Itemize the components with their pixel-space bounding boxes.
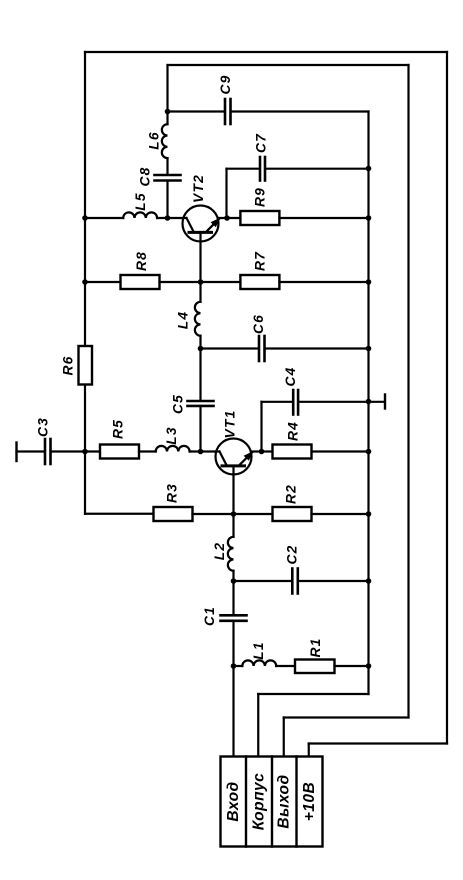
node C4 row bus	[366, 399, 372, 405]
inductor L2	[228, 537, 234, 571]
wire stub to terminal	[369, 401, 385, 403]
wire to L2	[232, 514, 234, 537]
connector divider 2	[271, 757, 273, 847]
resistor R8	[121, 275, 160, 289]
svg-text:L1: L1	[251, 641, 266, 660]
svg-text:R1: R1	[308, 637, 323, 657]
node C5 / VT1 base row	[198, 449, 204, 455]
svg-text:C2: C2	[285, 544, 300, 564]
terminal bar right	[384, 395, 386, 409]
wire L1 to R1	[276, 665, 295, 667]
svg-text:R6: R6	[61, 355, 76, 375]
wire jog to +10V pin	[309, 742, 447, 744]
svg-text:C5: C5	[171, 394, 186, 414]
wire L2 to C2 row	[232, 571, 234, 581]
connector divider 1	[245, 757, 247, 847]
capacitor C2	[292, 569, 298, 594]
wire R8 row left	[85, 281, 121, 283]
svg-text:L3: L3	[164, 426, 179, 445]
node L4 / C6 row	[198, 346, 204, 352]
resistor R2	[273, 507, 312, 521]
node R9 row bus	[366, 215, 372, 221]
svg-text:R7: R7	[253, 251, 268, 271]
wire VT2 emitter lead	[199, 234, 201, 282]
resistor R6	[79, 346, 93, 385]
node C6 row bus	[366, 346, 372, 352]
node VT2 collector / C7	[224, 215, 230, 221]
wire ground bus jog	[258, 693, 368, 695]
capacitor C4	[293, 390, 298, 415]
node R8 row left bus	[82, 279, 88, 285]
svg-text:L6: L6	[147, 131, 162, 150]
wire +10V pin stub	[308, 744, 310, 757]
node L5 row left bus	[82, 215, 88, 221]
svg-text:Корпус: Корпус	[251, 773, 268, 831]
wire R1 to bus	[335, 665, 369, 667]
node C2 row left	[231, 578, 237, 584]
wire top outer +10V rail	[85, 51, 447, 53]
transistor VT1	[216, 439, 252, 475]
resistor R3	[154, 507, 193, 521]
node C9 row / L6 branch	[165, 109, 171, 115]
wire C4 row left	[262, 401, 293, 403]
svg-text:C4: C4	[283, 366, 298, 386]
wire R5 to L3	[139, 450, 156, 452]
inductor L5	[123, 212, 157, 218]
svg-text:R5: R5	[111, 419, 126, 439]
wire VT1 base lead	[232, 467, 234, 514]
wire C2 junction to C1	[232, 581, 234, 614]
svg-text:L2: L2	[212, 542, 227, 561]
svg-text:R2: R2	[284, 484, 299, 504]
svg-text:+10В: +10В	[301, 782, 318, 822]
node L1 row left	[231, 663, 237, 669]
capacitor C9	[225, 99, 231, 124]
wire output loop right vertical	[407, 65, 409, 718]
resistor R5	[100, 445, 139, 459]
resistor R1	[295, 660, 335, 674]
connector divider 3	[295, 757, 297, 847]
wire C1 to L1 row	[232, 622, 234, 666]
wire C3 to junction	[52, 450, 100, 452]
capacitor C3	[45, 439, 51, 464]
svg-text:R3: R3	[165, 483, 180, 503]
wire C4 row right	[299, 401, 368, 403]
wire R3 row left segment	[85, 513, 154, 515]
wire L3 to VT1	[190, 450, 220, 452]
wire C6 row right	[266, 347, 369, 349]
inductor L3	[156, 446, 190, 452]
resistor R4	[273, 445, 312, 459]
wire C7 row right	[266, 168, 368, 170]
svg-text:C7: C7	[254, 133, 269, 153]
wire C4 branch vertical	[260, 402, 262, 452]
connector box	[221, 757, 323, 847]
svg-text:VT2: VT2	[191, 174, 206, 203]
wire output pin stub	[283, 718, 285, 757]
inductor L6	[162, 124, 168, 158]
wire left bus vertical	[84, 52, 86, 514]
capacitor C8	[155, 175, 181, 181]
wire L6 to C8	[166, 158, 168, 174]
node C2 row bus	[366, 578, 372, 584]
wire R8 to R7	[160, 281, 241, 283]
node R1 row bus	[366, 663, 372, 669]
svg-text:C9: C9	[218, 74, 233, 94]
resistor R9	[240, 211, 279, 225]
node R2 row bus	[366, 511, 372, 517]
node C3 junction	[82, 449, 88, 455]
node C7 row bus	[366, 166, 372, 172]
svg-text:VT1: VT1	[223, 410, 238, 439]
svg-text:C1: C1	[202, 606, 217, 626]
wire jog to output pin	[284, 716, 409, 718]
wire inner top (output loop)	[168, 64, 409, 66]
wire C7 row left	[227, 168, 259, 170]
wire C5 to VT1 base row	[199, 407, 201, 451]
node VT1 collector / C4 branch	[259, 449, 265, 455]
svg-text:C6: C6	[251, 314, 266, 334]
wire L5 row left	[85, 217, 123, 219]
svg-text:R8: R8	[134, 251, 149, 271]
wire R9 to bus	[279, 217, 368, 219]
node R4 row bus	[366, 449, 372, 455]
wire C9 row right	[232, 110, 369, 112]
inductor L1	[242, 660, 276, 666]
wire L6 branch top vertical	[166, 65, 168, 124]
wire right outer vertical	[446, 52, 448, 744]
wire L1 row left	[234, 665, 243, 667]
inductor L4	[195, 302, 201, 336]
wire ground bus vertical	[367, 112, 369, 695]
capacitor C1	[221, 615, 247, 621]
svg-text:C8: C8	[138, 166, 153, 186]
wire VT1 to R4	[251, 450, 273, 452]
svg-text:C3: C3	[36, 417, 51, 437]
wire R7 to bus	[279, 281, 368, 283]
svg-text:L4: L4	[176, 311, 191, 330]
wire VT2 to R9	[218, 217, 241, 219]
svg-text:Вход: Вход	[225, 781, 242, 821]
wire to L4	[199, 282, 201, 302]
svg-text:R9: R9	[253, 187, 268, 207]
wire C8 to L5 row	[166, 182, 168, 218]
wire R3 to R2	[193, 513, 273, 515]
wire C2 row right	[299, 580, 368, 582]
node R3 R2 row	[231, 511, 237, 517]
node R7 row bus	[366, 279, 372, 285]
resistor R7	[240, 275, 279, 289]
transistor VT2	[183, 206, 219, 242]
wire terminal to C3	[17, 450, 44, 452]
svg-text:R4: R4	[286, 421, 301, 441]
capacitor C7	[260, 157, 265, 181]
node C8 / L5 row	[165, 215, 171, 221]
capacitor C5	[188, 401, 214, 406]
wire C9 row left	[168, 110, 224, 112]
node VT2 emitter row	[198, 279, 204, 285]
wire ground pin stub	[257, 694, 259, 757]
wire C2 row left	[234, 580, 292, 582]
terminal bar left	[15, 443, 17, 462]
wire C7 branch vertical	[225, 169, 227, 218]
wire C6 row left	[201, 347, 258, 349]
wire C6 junction to C5	[199, 349, 201, 400]
capacitor C6	[259, 336, 265, 361]
svg-text:L5: L5	[133, 192, 148, 211]
wire R4 to bus	[312, 450, 369, 452]
wire L5 to VT2 base	[157, 217, 186, 219]
wire R2 to bus	[312, 513, 369, 515]
wire L4 to C6 row	[199, 336, 201, 349]
wire input lead	[232, 666, 234, 757]
svg-text:Выход: Выход	[276, 774, 293, 828]
